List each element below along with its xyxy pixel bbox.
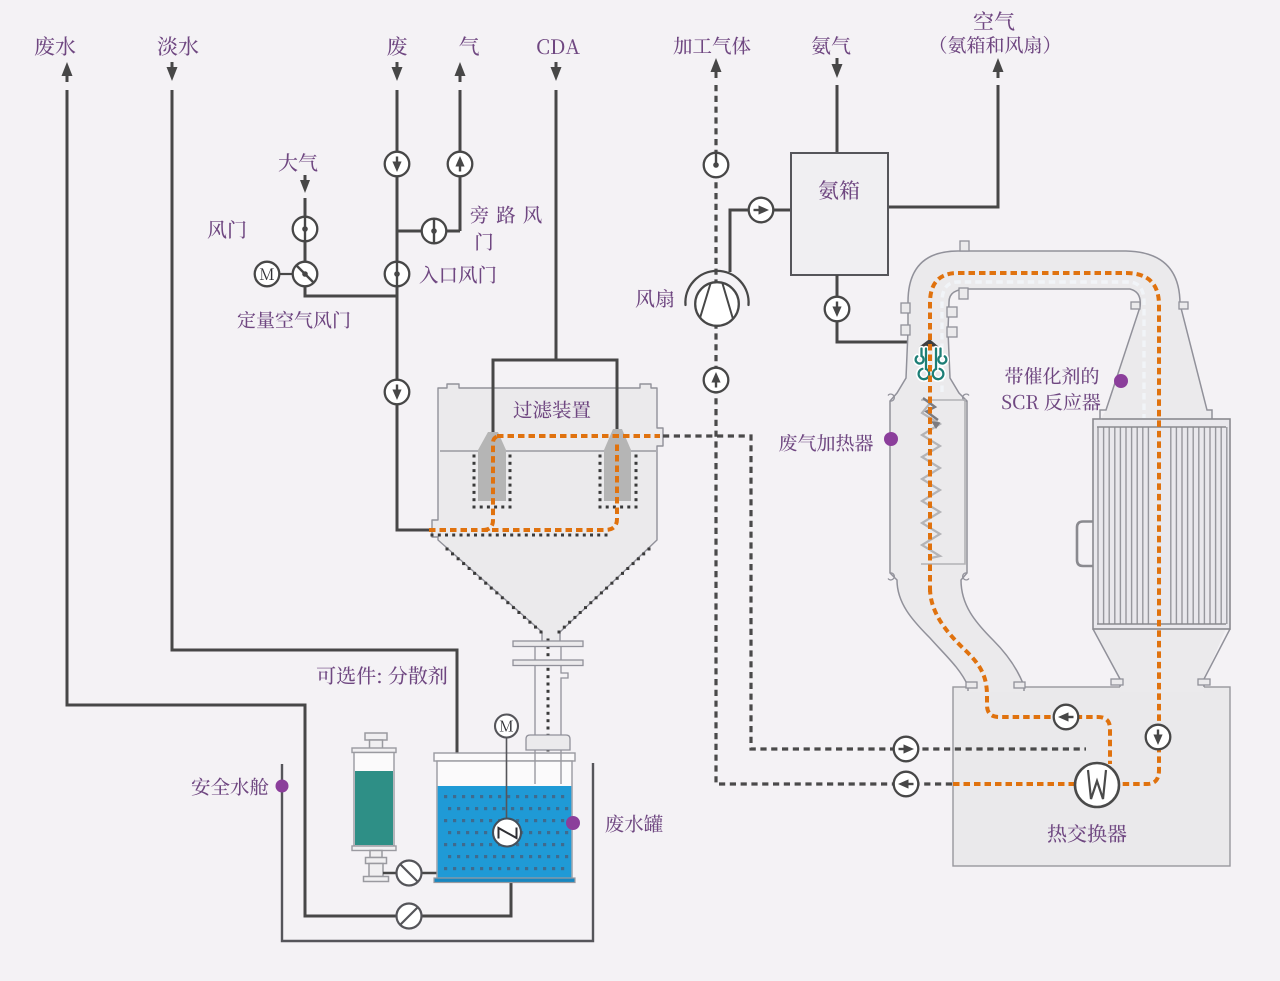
- wire waste line: [397, 90, 433, 530]
- stirrer motor M: [495, 715, 518, 738]
- label ammonia 氨气: [812, 36, 851, 55]
- arrow up gas: [455, 62, 466, 76]
- flow indicator from HX left: [894, 772, 919, 797]
- label exhaust-heater 废气加热器: [779, 434, 873, 452]
- funnel flange 1: [513, 641, 583, 647]
- dot waste-tank: [566, 816, 580, 830]
- dashed process gas main vertical + to HX: [716, 85, 953, 784]
- label SCR line1 带催化剂的: [1005, 367, 1098, 385]
- label waste-tank 废水罐: [606, 815, 663, 833]
- hot gas orange path filter bottom: [429, 443, 617, 530]
- label gas 气: [459, 36, 479, 55]
- label process-gas 加工气体: [674, 37, 751, 55]
- label inlet-damper 入口风门: [420, 266, 496, 284]
- label CDA: [537, 39, 580, 54]
- wire bypass line: [397, 230, 460, 233]
- dispersant liquid: [355, 771, 393, 845]
- tank rim: [434, 753, 575, 761]
- valve inlet damper: [385, 262, 410, 287]
- SCR catalyst ribs: [1098, 427, 1227, 624]
- duct outline funnel left: [1093, 629, 1120, 687]
- label fresh-water 淡水: [158, 36, 199, 55]
- wire fresh-water inlet pipe: [172, 90, 457, 753]
- dust dotted funnel right slope: [558, 548, 651, 634]
- flow indicator HX down: [1146, 725, 1171, 750]
- label damper 风门: [208, 220, 246, 239]
- arrow up air: [993, 58, 1004, 72]
- hot gas orange HX outlet left: [953, 782, 1075, 786]
- dispersant top lip: [352, 748, 396, 753]
- flow indicator gas up: [448, 152, 473, 177]
- wire waste-water outlet pipe: [67, 90, 511, 916]
- label metering-damper 定量空气风门: [238, 311, 350, 329]
- heat exchanger symbol: [1075, 763, 1119, 807]
- label safety-tank 安全水舱: [192, 778, 269, 796]
- label heat-exchanger 热交换器: [1048, 824, 1127, 843]
- arrow down waste: [396, 62, 399, 70]
- arrow down ammonia: [836, 58, 839, 66]
- dashed filter outlet to HX: [663, 436, 1086, 749]
- wire gas line: [459, 90, 462, 231]
- dispersant cap: [365, 733, 387, 740]
- valve on process gas line: [704, 153, 729, 178]
- label air-sub （氨箱和风扇）: [941, 36, 1049, 54]
- tank liquid dots: [444, 795, 568, 870]
- funnel feet: [1111, 679, 1123, 685]
- flow indicator to filter down: [385, 380, 410, 405]
- fan 风扇: [685, 271, 748, 326]
- flow indicator HX top left: [1054, 705, 1079, 730]
- stirrer shaft: [506, 737, 508, 819]
- flow indicator to HX right: [894, 737, 919, 762]
- arrow down CDA: [555, 62, 558, 70]
- arrow down fresh-water: [171, 62, 174, 70]
- heater vessel corner curls: [888, 394, 969, 580]
- filter candle right dotted cage: [599, 455, 638, 509]
- flow indicator waste down: [385, 152, 410, 177]
- spray icon: [916, 349, 947, 380]
- pump waste water: [397, 904, 422, 929]
- arrow up waste-water: [62, 62, 73, 76]
- motor M: [255, 262, 293, 287]
- dot exhaust-heater: [884, 432, 898, 446]
- electric bolt: [923, 398, 938, 420]
- tank base: [434, 878, 575, 883]
- clean gas white dashed line: [942, 282, 1144, 418]
- valve bypass damper: [422, 219, 447, 244]
- dust dotted drop line: [547, 639, 550, 774]
- filter vessel body: [432, 384, 663, 644]
- duct flange bump top run left: [960, 241, 969, 251]
- funnel tube into tank: [535, 750, 561, 753]
- filter inlet pipes from CDA: [493, 360, 617, 433]
- air outlet line: [888, 85, 998, 207]
- duct outline inner: [948, 289, 1140, 691]
- heat exchanger box: [953, 687, 1230, 866]
- ammonia feed line: [836, 85, 839, 153]
- duct outline outer: [890, 251, 1212, 691]
- wire safety-tank line: [282, 763, 593, 941]
- dot SCR: [1114, 374, 1128, 388]
- funnel tube upper: [535, 647, 561, 661]
- ammonia dosing line: [837, 275, 921, 342]
- filter divider plate: [440, 450, 656, 452]
- SCR reactor box: [1093, 419, 1230, 629]
- duct outline funnel right: [1204, 629, 1230, 687]
- duct network (heater duct, top run, SCR throat): [890, 251, 1212, 692]
- filter candle right: [604, 429, 631, 501]
- label air 空气: [974, 11, 1015, 31]
- label fan 风扇: [636, 289, 674, 308]
- wire damper link: [305, 242, 397, 296]
- flow indicator process gas up: [704, 368, 729, 393]
- tank liquid: [438, 786, 572, 878]
- SCR handle: [1077, 522, 1093, 567]
- label waste-water 废水: [35, 36, 76, 56]
- wire atmosphere stub: [304, 198, 307, 216]
- label bypass-damper 旁路风 line1: [471, 206, 542, 224]
- label optional-dispersant 可选件: 分散剂: [317, 666, 447, 685]
- arrow down atmosphere: [304, 175, 307, 181]
- SCR funnel duct: [1093, 625, 1226, 692]
- ammonia tank 氨箱: [791, 153, 888, 275]
- funnel tube lower: [535, 666, 568, 736]
- valve damper 风门: [293, 217, 318, 242]
- flow indicator ammonia air right: [749, 198, 774, 223]
- dust dotted funnel left slope: [446, 548, 543, 634]
- dispersant outlet valve: [364, 851, 389, 882]
- dispersant body: [354, 753, 394, 847]
- filter candle left: [478, 432, 506, 501]
- heater zigzag element: [922, 402, 940, 558]
- dust dotted line bottom: [431, 534, 608, 537]
- wire CDA line: [555, 90, 558, 360]
- dot safety-tank: [276, 780, 289, 793]
- hot gas orange path filter top run: [497, 434, 660, 438]
- SCR rib bands: [1097, 427, 1226, 624]
- ammonia nozzle: [920, 339, 939, 347]
- pump dispersant: [397, 861, 422, 886]
- label ammonia-tank 氨箱: [819, 180, 859, 199]
- label atmosphere 大气: [279, 153, 318, 172]
- flow indicator ammonia down: [825, 297, 850, 322]
- filter candle left dotted cage: [473, 455, 512, 509]
- arrow up process-gas: [711, 58, 722, 72]
- funnel flange 2: [513, 660, 583, 666]
- hot gas orange top loop: [930, 273, 1159, 784]
- funnel bottom flange: [526, 735, 570, 750]
- funnel tube inside tank: [535, 753, 561, 784]
- tank body: [437, 761, 572, 878]
- dispersant outlet pipe: [383, 872, 437, 875]
- duct flange bumps left wall: [901, 303, 910, 313]
- s-duct feet: [966, 682, 977, 688]
- hot gas orange S-bend to HX: [930, 588, 1110, 764]
- label bypass-damper 门 line2: [476, 233, 492, 251]
- heater element frame: [921, 400, 965, 564]
- label waste 废: [387, 36, 407, 56]
- label SCR line2 SCR 反应器: [1002, 393, 1100, 411]
- fan outlet pipe: [730, 210, 791, 272]
- duct flange bumps inner wall: [947, 307, 957, 317]
- level sensor: [493, 819, 521, 847]
- dispersant bottom lip: [352, 846, 396, 851]
- label filter 过滤装置: [514, 401, 591, 419]
- valve metering air damper: [293, 262, 318, 287]
- duct flange bumps SCR throat: [1131, 302, 1140, 309]
- hot gas orange path left candle: [483, 436, 501, 530]
